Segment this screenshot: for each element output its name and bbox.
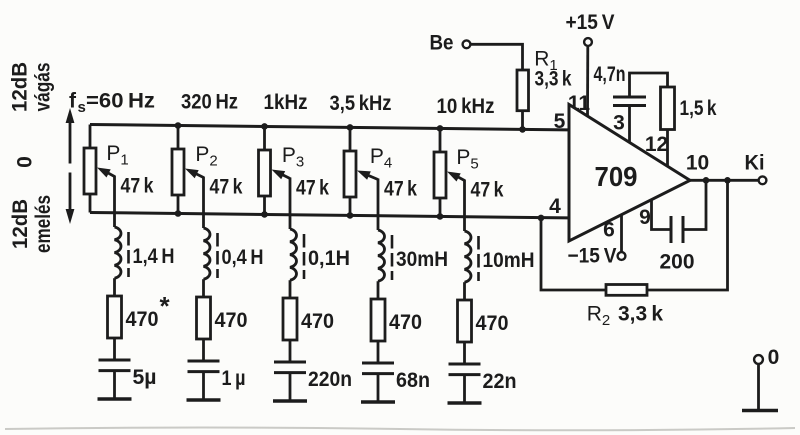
label fs=60Hz (69, 90, 155, 117)
svg-text:220n: 220n (308, 368, 352, 391)
svg-text:470: 470 (126, 308, 159, 331)
svg-text:4,7n: 4,7n (594, 63, 626, 86)
svg-text:0: 0 (14, 156, 37, 168)
label Ki (745, 152, 765, 175)
svg-text:0,1H: 0,1H (308, 247, 350, 270)
terminal -15V (618, 252, 626, 260)
svg-text:10 kHz: 10 kHz (437, 95, 495, 118)
terminal 0 (754, 355, 763, 364)
svg-text:10mH: 10mH (483, 249, 535, 272)
svg-text:68n: 68n (396, 369, 430, 392)
wire P4 top (349, 127, 352, 151)
svg-text:−15 V: −15 V (568, 245, 617, 268)
pin 4 label (549, 195, 561, 218)
label Be (430, 32, 454, 55)
pin 10 label (686, 152, 709, 175)
wire 4,7n to 1,5k (630, 73, 668, 97)
wire P2 bottom (177, 195, 180, 213)
wire C5 to ground (463, 375, 466, 403)
pin 12 label (645, 133, 668, 156)
wire R to C (branch 1) (113, 338, 116, 360)
wire Be to R1 (470, 44, 522, 70)
wire P3 top (263, 126, 266, 150)
label 47k (P3) (296, 177, 329, 200)
junction bottom bus / P5 (437, 213, 444, 220)
label 47k (P2) (210, 176, 243, 199)
svg-text:12dB: 12dB (9, 199, 32, 249)
svg-text:30mH: 30mH (396, 248, 448, 271)
label R1 (534, 48, 558, 75)
svg-text:47 k: 47 k (210, 176, 243, 199)
axis arrow up (vágás) (66, 108, 75, 164)
junction bottom bus / P3 (261, 211, 268, 218)
label P1 (106, 142, 128, 169)
capacitor 4,7n (613, 97, 646, 106)
wire P5 bottom (439, 198, 442, 216)
label 47k (P5) (471, 179, 504, 202)
svg-text:5µ: 5µ (133, 366, 157, 389)
svg-text:s: s (78, 99, 86, 116)
inductor L1 (115, 227, 121, 278)
label 10kHz (437, 95, 495, 118)
label 1kHz (264, 91, 308, 114)
wire R1 to top bus (521, 111, 524, 130)
resistor 470 (branch 4) (371, 299, 385, 341)
wire L4 to R (377, 281, 380, 299)
svg-text:47 k: 47 k (471, 179, 504, 202)
inductor L2 core (dashed) (216, 233, 219, 278)
svg-text:12: 12 (645, 133, 668, 156)
svg-text:=60 Hz: =60 Hz (86, 90, 155, 113)
label 470 (branch 4) (389, 311, 422, 334)
potentiometer P4 body (344, 151, 356, 197)
capacitor C5 (449, 364, 481, 375)
label -15V (568, 245, 617, 268)
junction R1 / top bus (519, 126, 526, 133)
terminal Ki (759, 176, 767, 184)
wire C4 to ground (377, 374, 380, 402)
label 47k (P1) (121, 175, 154, 198)
svg-text:Be: Be (430, 32, 454, 55)
label 12dB emelés (rotated) (9, 195, 55, 253)
potentiometer P3 body (259, 150, 271, 196)
svg-text:470: 470 (301, 310, 334, 333)
wire C1 to ground (113, 371, 116, 399)
inductor L4 core (dashed) (391, 235, 394, 280)
label 12dB vágás (rotated) (9, 62, 55, 112)
svg-text:1,5 k: 1,5 k (680, 97, 717, 120)
label 3,5kHz (330, 92, 392, 115)
wire output (690, 179, 759, 182)
svg-text:1kHz: 1kHz (264, 91, 308, 114)
terminal Be (463, 40, 471, 48)
ground (branch 4) (361, 400, 395, 403)
junction bottom bus / P2 (175, 210, 182, 217)
wire P2 top (177, 125, 180, 149)
label 3,3k (R1) (535, 68, 572, 91)
wire C3 to ground (289, 373, 292, 401)
inductor L3 core (dashed) (303, 234, 306, 279)
label L3 value 0,1H (308, 247, 350, 270)
wire R to C (branch 4) (377, 341, 380, 363)
svg-text:470: 470 (476, 312, 509, 335)
scan artifact bottom edge (5, 428, 795, 431)
svg-text:9: 9 (639, 206, 651, 229)
wire C2 to ground (202, 372, 205, 400)
label 1,5k (680, 97, 717, 120)
label 470 (branch 2) (215, 309, 248, 332)
svg-text:3,5 kHz: 3,5 kHz (330, 92, 392, 115)
svg-text:emelés: emelés (32, 195, 55, 253)
label C5 value 22n (483, 370, 517, 393)
label L5 value 10mH (483, 249, 535, 272)
pin 6 label (603, 219, 615, 242)
label P5 (456, 146, 478, 173)
label 709 (595, 161, 638, 192)
junction bottom bus / R2 (538, 215, 545, 222)
wire P5 wiper (447, 172, 465, 182)
wire P1 bottom (89, 194, 92, 213)
capacitor C2 (188, 361, 220, 372)
ground (branch 1) (98, 397, 132, 400)
svg-text:5: 5 (554, 110, 566, 133)
pin 3 label (613, 112, 625, 135)
svg-text:*: * (160, 291, 171, 321)
resistor R1 body (517, 70, 529, 111)
wire P2 wiper (185, 169, 204, 179)
svg-text:470: 470 (389, 311, 422, 334)
junction output / 200 cap (703, 177, 710, 184)
inductor L1 core (dashed) (127, 232, 130, 277)
svg-text:470: 470 (215, 309, 248, 332)
terminal +15V (584, 38, 592, 46)
wire P4 wiper (357, 171, 378, 180)
label 3,3k (R2) (618, 303, 663, 326)
svg-text:4: 4 (549, 195, 561, 218)
op-amp U1 709 body (569, 105, 690, 242)
inductor L4 (378, 230, 384, 281)
svg-text:0,4 H: 0,4 H (222, 246, 264, 269)
wire R to C (branch 3) (289, 340, 292, 362)
wire P4 bottom (349, 197, 352, 215)
pin 5 label (554, 110, 566, 133)
svg-text:10: 10 (686, 152, 709, 175)
capacitor C1 (99, 360, 131, 371)
capacitor C3 (274, 362, 306, 373)
wire R to C (branch 2) (202, 339, 205, 361)
label C1 value 5µ (133, 366, 157, 389)
wire pin 9 to cap (652, 200, 672, 230)
ground (branch 2) (187, 398, 221, 401)
label 470 (branch 5) (476, 312, 509, 335)
junction output / R2 (724, 177, 731, 184)
resistor 470 (branch 2) (197, 297, 211, 339)
label 4,7n (594, 63, 626, 86)
junction top bus / P2 (175, 122, 182, 129)
junction top bus / P4 (347, 124, 354, 131)
label R2 (587, 303, 611, 330)
label 470 (branch 3) (301, 310, 334, 333)
label asterisk on 470 (160, 291, 171, 321)
label 47k (P4) (384, 178, 417, 201)
svg-text:47 k: 47 k (121, 175, 154, 198)
label 470 (branch 1) (126, 308, 159, 331)
wire 0 terminal to ground (757, 364, 760, 409)
label 320Hz (181, 91, 238, 114)
inductor L3 (290, 229, 296, 280)
label +15V (566, 11, 615, 34)
wire pin 3 up (628, 106, 631, 143)
svg-text:3,3 k: 3,3 k (535, 68, 572, 91)
resistor R2 body (606, 285, 647, 296)
wire L2 to R (202, 279, 205, 297)
potentiometer P1 body (84, 148, 96, 194)
inductor L5 core (dashed) (477, 236, 480, 281)
svg-text:12dB: 12dB (9, 62, 32, 112)
wire P5 top (439, 128, 442, 152)
label P4 (370, 145, 392, 172)
label 0 terminal (768, 346, 780, 369)
label 200 (660, 251, 695, 274)
wire R2 to output (647, 180, 728, 290)
svg-text:+15 V: +15 V (566, 11, 615, 34)
label L2 value 0,4&#8201;H (222, 246, 264, 269)
wire wiper to L1 (113, 176, 116, 228)
label P2 (195, 143, 217, 170)
wire wiper to L4 (377, 179, 380, 231)
svg-text:200: 200 (660, 251, 695, 274)
ground (branch 5) (448, 401, 482, 404)
junction top bus / P5 (437, 125, 444, 132)
wire bottom bus to R2 (541, 218, 606, 290)
svg-text:3,3 k: 3,3 k (618, 303, 663, 326)
inductor L2 (204, 228, 210, 279)
pin 11 label (568, 92, 591, 115)
wire L1 to R (113, 278, 116, 296)
svg-text:Ki: Ki (745, 152, 765, 175)
svg-text:6: 6 (603, 219, 615, 242)
svg-text:22n: 22n (483, 370, 517, 393)
wire R to C (branch 5) (463, 342, 466, 364)
svg-text:f: f (69, 90, 77, 113)
wire wiper to L5 (463, 180, 466, 232)
svg-text:1 µ: 1 µ (222, 367, 246, 390)
wire P1 top (89, 125, 92, 149)
label C4 value 68n (396, 369, 430, 392)
potentiometer P2 body (172, 149, 184, 195)
wire pin 6 down (620, 215, 623, 252)
inductor L5 (465, 231, 471, 282)
resistor 470 (branch 3) (283, 298, 297, 340)
label L4 value 30mH (396, 248, 448, 271)
label P3 (282, 144, 304, 171)
svg-text:47 k: 47 k (384, 178, 417, 201)
label L1 value 1,4&#8201;H (133, 245, 175, 268)
wire top bus (pin 5 net) (90, 125, 568, 130)
wire wiper to L3 (289, 178, 292, 230)
label C3 value 220n (308, 368, 352, 391)
resistor 470 (branch 5) (458, 300, 472, 342)
label C2 value 1&#8201;µ (222, 367, 246, 390)
wire L5 to R (463, 282, 466, 300)
svg-text:3: 3 (613, 112, 625, 135)
svg-text:709: 709 (595, 161, 638, 192)
potentiometer P5 body (434, 152, 446, 198)
wire P3 wiper (272, 170, 291, 180)
wire wiper to L2 (202, 177, 205, 229)
wire P1 wiper (97, 168, 115, 178)
pin 9 label (639, 206, 651, 229)
svg-text:1,4 H: 1,4 H (133, 245, 175, 268)
wire L3 to R (289, 280, 292, 298)
wire +15V to pin 11 (586, 46, 589, 116)
junction bottom bus / P4 (347, 212, 354, 219)
svg-text:0: 0 (768, 346, 780, 369)
label 0 (rotated) (14, 156, 37, 168)
svg-text:47 k: 47 k (296, 177, 329, 200)
junction top bus / P3 (261, 123, 268, 130)
wire 1,5k to pin 12 (666, 130, 669, 167)
axis arrow down (emelés) (66, 173, 75, 225)
wire cap to output (683, 180, 706, 229)
wire P3 bottom (263, 196, 266, 214)
svg-text:vágás: vágás (32, 63, 55, 112)
wire bottom bus (pin 4 net) (90, 213, 568, 218)
svg-text:320 Hz: 320 Hz (181, 91, 238, 114)
ground (0 reference) (742, 409, 778, 412)
resistor 470 (branch 1) (108, 296, 122, 338)
capacitor C4 (362, 363, 394, 374)
resistor 1,5k body (661, 87, 675, 130)
ground (branch 3) (273, 399, 307, 402)
capacitor 200 (671, 216, 683, 243)
